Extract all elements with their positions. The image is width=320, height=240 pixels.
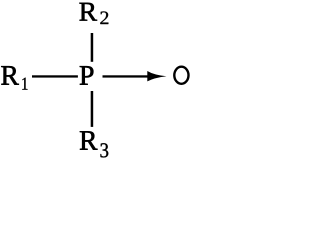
bond P-R2 (vertical single bond) xyxy=(91,33,94,62)
atom label R1: letter R xyxy=(1,66,19,84)
atom O (oxygen) xyxy=(174,67,188,84)
atom label R3: subscript 3 xyxy=(100,143,108,157)
bond R1-P (horizontal single bond) xyxy=(32,75,78,77)
dative bond arrow P to O: shaft xyxy=(103,75,150,77)
atom label R1: subscript 1 xyxy=(22,78,27,90)
bond P-R3 (vertical single bond) xyxy=(91,91,94,127)
dative bond arrow P to O: arrowhead xyxy=(147,71,166,81)
atom label R2: subscript 2 xyxy=(100,11,108,24)
chemical structure diagram: trisubstituted phosphine oxide R1R2R3P->O xyxy=(0,0,194,161)
atom P (phosphorus) xyxy=(80,66,94,84)
atom label R2: letter R xyxy=(79,3,97,21)
atom label R3: letter R xyxy=(80,131,98,149)
